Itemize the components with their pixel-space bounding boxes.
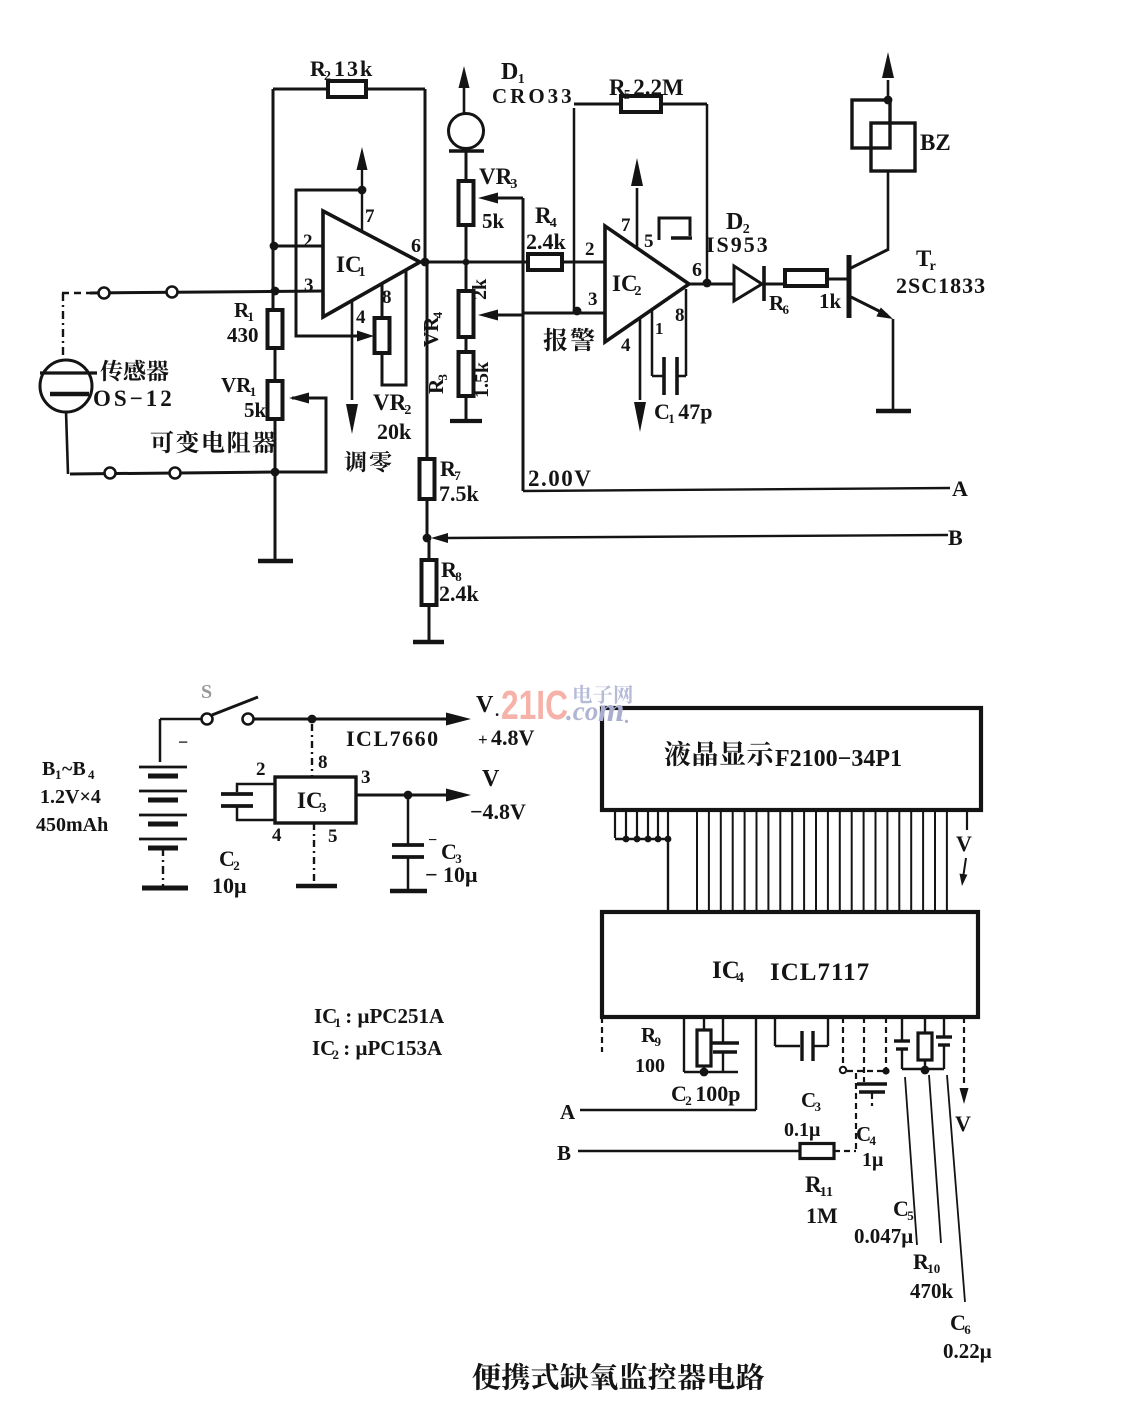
wire C2 to pin4	[237, 807, 275, 820]
svg-text:5k: 5k	[482, 209, 505, 233]
svg-text:3: 3	[510, 177, 517, 192]
label ICL7660	[346, 726, 440, 751]
svg-text:2.00V: 2.00V	[528, 466, 592, 491]
pin 5 stub IC2	[659, 218, 692, 240]
resistor R9	[635, 1017, 711, 1077]
lamp D1 CRO33	[449, 59, 575, 151]
wire VR2 bottom loop	[382, 270, 406, 385]
pin label 6 IC2	[692, 259, 702, 281]
capacitor C6 (int) right	[936, 1017, 952, 1069]
transistor Tr 2SC1833	[847, 246, 987, 319]
svg-text:3: 3	[304, 275, 314, 296]
svg-text:CRO33: CRO33	[492, 84, 575, 108]
svg-text:7: 7	[621, 215, 631, 236]
lcd backplane pins	[615, 810, 668, 838]
wire R6 to base	[827, 278, 848, 281]
wire R7 to node	[426, 499, 429, 538]
svg-text:4: 4	[870, 1133, 877, 1148]
wire R5 right leg	[661, 104, 707, 283]
svg-text:2.4k: 2.4k	[526, 229, 567, 254]
wire pin1 to C1	[652, 310, 664, 376]
svg-text:V: V	[956, 831, 972, 856]
svg-text:2.2M: 2.2M	[633, 75, 684, 100]
svg-text:B: B	[557, 1141, 571, 1165]
svg-text:4: 4	[737, 970, 745, 986]
capacitor C5 (az) left	[894, 1017, 910, 1069]
wire IC2 output	[689, 283, 734, 286]
svg-text:1μ: 1μ	[862, 1149, 884, 1171]
pin label 2 IC1	[303, 231, 313, 252]
arrow V- IC2	[634, 402, 646, 432]
pin label 8 IC1	[382, 287, 392, 308]
wire bottom rail to sensor	[70, 472, 275, 474]
svg-text:B: B	[42, 758, 55, 780]
pin label 3 IC3	[361, 767, 371, 788]
wire B line	[578, 1150, 800, 1152]
svg-text:7.5k: 7.5k	[439, 481, 480, 506]
wire pin2 to C2	[237, 784, 275, 792]
pin label 3 IC1	[304, 275, 314, 296]
switch S	[201, 681, 258, 725]
wire pin 2 IC1	[273, 245, 324, 248]
svg-text:~B: ~B	[62, 758, 86, 780]
label C5 0.047u	[854, 1196, 914, 1248]
leader line R10	[929, 1075, 941, 1243]
svg-text:47p: 47p	[678, 399, 712, 424]
svg-text:5: 5	[644, 231, 654, 252]
wire D2 to R6	[764, 283, 785, 286]
node R5 to pin3	[573, 307, 582, 316]
wire A line	[580, 1017, 756, 1110]
resistor R11	[800, 1144, 838, 1229]
resistor R2	[310, 56, 374, 97]
wire IC1 output rail	[420, 261, 605, 264]
capacitor C2 100p (osc)	[671, 1017, 741, 1108]
svg-text:3: 3	[435, 374, 450, 381]
svg-text:S: S	[201, 681, 212, 703]
watermark 21IC	[501, 682, 632, 729]
svg-text:5: 5	[907, 1208, 914, 1223]
svg-text:V: V	[955, 1111, 971, 1136]
svg-text:VR: VR	[221, 373, 252, 397]
label C6 0.22u	[943, 1310, 992, 1363]
wire to C3	[407, 795, 410, 844]
svg-text:8: 8	[318, 752, 328, 773]
arrow VR4 wiper	[478, 310, 498, 321]
node IC1 output	[421, 258, 430, 267]
resistor R4	[526, 203, 567, 270]
ground below C3	[390, 889, 427, 894]
wire feedback right vertical	[424, 89, 427, 262]
svg-text:2: 2	[324, 69, 331, 84]
arrow V- 4.8V	[446, 789, 471, 802]
svg-text:−4.8V: −4.8V	[470, 799, 526, 824]
svg-text:2: 2	[585, 239, 595, 260]
svg-text:2: 2	[635, 284, 642, 299]
wire D1 anode	[463, 88, 466, 114]
capacitor C1 47p	[654, 357, 713, 426]
arrow VR3 wiper	[478, 193, 498, 204]
label A	[952, 476, 968, 501]
node R9 bottom	[700, 1068, 709, 1077]
capacitor C2 10u	[212, 794, 253, 898]
wire pin8 to C1	[677, 289, 686, 376]
wire sensor top / pin 3 IC1	[62, 291, 324, 293]
ic IC3 box	[275, 777, 356, 823]
wire D1-VR3	[465, 152, 468, 181]
svg-text:2: 2	[233, 858, 240, 873]
svg-text:A: A	[952, 476, 968, 501]
svg-text:1: 1	[335, 1015, 342, 1030]
wire C3 to ground	[407, 858, 410, 890]
resistor R3	[424, 352, 493, 398]
wire to IC3 pin 8	[311, 724, 313, 777]
arrow VR2 wiper	[357, 331, 374, 342]
wire pin5 to ground	[313, 823, 315, 884]
wire VR3 wiper	[495, 197, 523, 200]
svg-text:10μ: 10μ	[212, 873, 247, 898]
wire R5 left leg	[574, 104, 621, 311]
wire VR1 wiper loop	[277, 398, 326, 472]
arrow V+ 4.8V	[446, 713, 471, 726]
svg-text:1: 1	[359, 265, 366, 280]
wire battery to ground	[162, 848, 164, 886]
svg-text:−: −	[428, 832, 437, 849]
wire VR4 wiper	[495, 314, 523, 317]
op-amp IC1	[323, 211, 420, 317]
battery B1-B4	[36, 732, 188, 848]
ground below R8	[413, 640, 444, 645]
resistor R8	[422, 557, 480, 606]
wire feedback left vertical	[272, 89, 275, 311]
node bottom junction	[271, 468, 280, 477]
wire reference vertical (VR3/VR4 wipers to A)	[522, 198, 525, 491]
wire VR1 bottom	[274, 419, 277, 473]
node C3 branch	[404, 791, 413, 800]
caption	[472, 1363, 764, 1390]
capacitor C3 ref	[775, 1017, 828, 1141]
wire pin4 IC2 V-	[639, 318, 642, 400]
svg-text:F2100−34P1: F2100−34P1	[775, 746, 902, 772]
svg-text:6: 6	[411, 235, 421, 257]
wire switch to V+	[253, 718, 449, 721]
svg-text:r: r	[930, 259, 936, 274]
pin label 2 IC3	[256, 759, 266, 780]
potentiometer VR1	[221, 373, 283, 422]
label zero adjust	[345, 451, 392, 473]
arrow V- zero-adjust	[346, 404, 358, 434]
svg-text:7: 7	[365, 206, 375, 227]
pin label 3 IC2	[588, 289, 598, 310]
label V+ 4.8V	[476, 692, 535, 750]
ground below R3	[450, 396, 482, 421]
svg-text:−: −	[178, 732, 188, 752]
ic IC4 ICL7117 box	[602, 912, 978, 1017]
node sensor/R1 junction	[271, 287, 280, 296]
pin label 8 IC3	[318, 752, 328, 773]
capacitor C3 10u	[392, 832, 478, 887]
svg-text:3: 3	[588, 289, 598, 310]
svg-text:4: 4	[88, 767, 95, 782]
potentiometer VR2	[373, 318, 412, 444]
svg-text:450mAh: 450mAh	[36, 814, 108, 836]
resistor R5	[609, 75, 684, 112]
svg-text:m: m	[598, 692, 624, 729]
svg-text:IS953: IS953	[706, 232, 770, 257]
svg-text:2: 2	[333, 1047, 340, 1062]
svg-text:6: 6	[964, 1322, 971, 1337]
svg-text:1M: 1M	[806, 1203, 838, 1228]
pin label 5 IC2	[644, 231, 654, 252]
svg-text:2k: 2k	[469, 278, 491, 300]
wire pin7 node to VR2 wiper	[296, 190, 362, 336]
wire int group bottom	[902, 1068, 944, 1070]
svg-text:D: D	[501, 59, 518, 85]
svg-text:VR: VR	[373, 390, 407, 415]
svg-text:5: 5	[328, 826, 338, 847]
svg-text:− 10μ: − 10μ	[425, 862, 478, 887]
svg-text:3: 3	[320, 801, 327, 816]
svg-text:11: 11	[820, 1185, 833, 1200]
svg-text:430: 430	[227, 323, 259, 347]
arrow B line	[431, 533, 448, 543]
svg-text:2: 2	[404, 403, 411, 418]
svg-text:4: 4	[621, 335, 631, 356]
svg-text:2.4k: 2.4k	[439, 581, 480, 606]
wire R1-VR1	[274, 348, 277, 381]
svg-text:21IC: 21IC	[501, 682, 568, 728]
svg-text:5k: 5k	[244, 398, 267, 422]
label V- 4.8V	[470, 766, 526, 824]
sensor OS-12	[40, 293, 175, 474]
ground below IC3	[296, 884, 337, 889]
wire V pin IC4	[955, 1017, 971, 1136]
svg-text:: μPC153A: : μPC153A	[343, 1036, 443, 1060]
svg-text:0.1μ: 0.1μ	[784, 1119, 821, 1141]
wire rail to VR4	[465, 262, 468, 291]
wire backplane to IC4	[667, 839, 669, 912]
pin label 4 IC3	[272, 825, 282, 846]
pin label 7 IC2	[621, 215, 631, 236]
svg-text:1.2V×4: 1.2V×4	[40, 786, 101, 808]
svg-text:A: A	[560, 1100, 576, 1124]
potentiometer VR4	[419, 278, 491, 347]
svg-text:3: 3	[815, 1099, 822, 1114]
svg-text:1: 1	[250, 384, 257, 399]
pin label 6 IC1	[411, 235, 421, 257]
svg-text:V: V	[482, 766, 500, 792]
wire dashed ref node	[840, 1017, 890, 1075]
wire pin 4 IC1 to V-	[351, 301, 354, 400]
wire emitter to ground	[892, 319, 895, 410]
svg-text:1: 1	[655, 319, 664, 338]
svg-text:OS−12: OS−12	[93, 386, 175, 411]
svg-text:20k: 20k	[377, 419, 412, 444]
arrow V+ BZ	[882, 52, 894, 78]
wire output to R7	[426, 262, 429, 459]
svg-text:10: 10	[927, 1261, 940, 1276]
pin label 2 IC2	[585, 239, 595, 260]
svg-text:: μPC251A: : μPC251A	[345, 1004, 445, 1028]
wire R8 to ground	[428, 538, 431, 641]
resistor R10 int	[918, 1017, 932, 1069]
pin label 7 IC1	[365, 206, 375, 227]
svg-text:2: 2	[685, 1093, 692, 1108]
label A bottom	[560, 1100, 576, 1124]
wire pin3 output	[356, 794, 449, 797]
pin label 5 IC3	[328, 826, 338, 847]
svg-text:100: 100	[635, 1055, 665, 1077]
lcd backplane junction	[615, 836, 671, 843]
svg-text:.co: .co	[566, 696, 598, 726]
lcd segment wires to IC4	[697, 810, 947, 912]
capacitor C4 1u	[856, 1017, 887, 1171]
leader line C5	[905, 1077, 917, 1245]
label variable resistor	[151, 431, 276, 454]
svg-text:4.8V: 4.8V	[491, 725, 535, 750]
svg-text:VR: VR	[419, 316, 443, 347]
svg-text:4: 4	[430, 311, 445, 318]
svg-text:VR: VR	[479, 164, 513, 189]
buzzer BZ	[852, 100, 951, 171]
ground below battery	[142, 886, 188, 891]
wire BZ to V+	[887, 80, 890, 100]
svg-text:6: 6	[783, 302, 790, 317]
node BZ top	[884, 96, 893, 105]
svg-text:0.047μ: 0.047μ	[854, 1224, 913, 1248]
lcd display F2100-34P1 box	[602, 708, 981, 810]
svg-text:.: .	[495, 701, 499, 720]
node V+ branch	[308, 715, 317, 724]
resistor R1	[227, 298, 283, 348]
pin label 8 IC2	[675, 305, 685, 326]
svg-text:1: 1	[55, 767, 62, 782]
svg-text:100p: 100p	[695, 1081, 740, 1106]
wire pin7 V+ IC2	[636, 188, 639, 249]
svg-text:6: 6	[692, 259, 702, 281]
wire IC4 left stub	[601, 1017, 603, 1052]
svg-text:+: +	[478, 730, 488, 749]
wire battery to switch	[160, 719, 201, 762]
connector circle bottom-right	[170, 468, 181, 479]
wire pin 8 IC1	[381, 284, 384, 318]
svg-text:1.5k: 1.5k	[471, 361, 493, 398]
leader line C6	[947, 1075, 965, 1302]
ground below transistor	[876, 409, 911, 414]
resistor R7	[420, 456, 480, 506]
wire VR4-R3	[465, 337, 468, 352]
svg-text:1k: 1k	[819, 289, 842, 313]
wire VR3 to output rail	[465, 225, 468, 262]
wire pin 3 IC2 reference	[523, 312, 605, 315]
svg-text:B: B	[948, 525, 963, 550]
node VR column	[463, 259, 470, 266]
svg-text:V: V	[476, 692, 494, 718]
svg-text:5: 5	[624, 88, 631, 103]
svg-text:ICL7117: ICL7117	[770, 959, 870, 986]
svg-text:8: 8	[675, 305, 685, 326]
svg-text:3: 3	[361, 767, 371, 788]
connector circle top-left	[99, 288, 110, 299]
resistor R6	[769, 270, 842, 317]
node IC2 output	[703, 279, 712, 288]
node pin2 junction	[270, 242, 279, 251]
connector circle top-right	[167, 287, 178, 298]
svg-text:BZ: BZ	[920, 130, 951, 155]
svg-text:2SC1833: 2SC1833	[896, 273, 986, 298]
wire line B	[446, 535, 948, 538]
pin label 1 IC2	[655, 319, 664, 338]
label B	[948, 525, 963, 550]
svg-text:2: 2	[303, 231, 313, 252]
lcd V pin	[956, 810, 972, 886]
svg-text:4: 4	[272, 825, 282, 846]
wire R11 to ref node	[834, 1073, 856, 1151]
label alarm	[544, 328, 595, 352]
svg-text:13k: 13k	[334, 56, 374, 81]
wire collector to BZ	[887, 171, 890, 249]
ground below VR1	[258, 473, 293, 561]
svg-text:ICL7660: ICL7660	[346, 726, 440, 751]
wire R9 group left leg	[683, 1017, 685, 1072]
svg-text:1: 1	[668, 411, 675, 426]
pin label 4 IC1	[356, 307, 366, 328]
svg-text:.: .	[624, 706, 629, 728]
arrow VR1 wiper	[289, 393, 309, 404]
node int group	[921, 1066, 930, 1075]
label 2.00V	[528, 466, 592, 491]
label B bottom	[557, 1141, 571, 1165]
pin label 4 IC2	[621, 335, 631, 356]
svg-text:0.22μ: 0.22μ	[943, 1339, 992, 1363]
arrow V+ IC2	[631, 158, 643, 186]
arrow V+ IC1	[357, 147, 368, 170]
label R10 470k	[910, 1249, 954, 1303]
connector circle bottom-left	[105, 468, 116, 479]
svg-text:1: 1	[248, 309, 255, 324]
diode D2 IS953	[706, 209, 770, 301]
wire pin7 V+ IC1	[358, 168, 367, 232]
label IC types	[312, 1004, 445, 1062]
svg-text:2: 2	[256, 759, 266, 780]
wire feedback top	[273, 88, 425, 91]
svg-text:470k: 470k	[910, 1279, 954, 1303]
potentiometer VR3	[459, 164, 518, 233]
wire R9 group bottom	[684, 1071, 738, 1073]
wire line A	[523, 488, 950, 491]
op-amp IC2	[605, 226, 689, 342]
svg-text:4: 4	[356, 307, 366, 328]
svg-text:9: 9	[655, 1034, 662, 1049]
node R7/R8	[423, 534, 432, 543]
arrow D1 to V+	[459, 66, 470, 88]
